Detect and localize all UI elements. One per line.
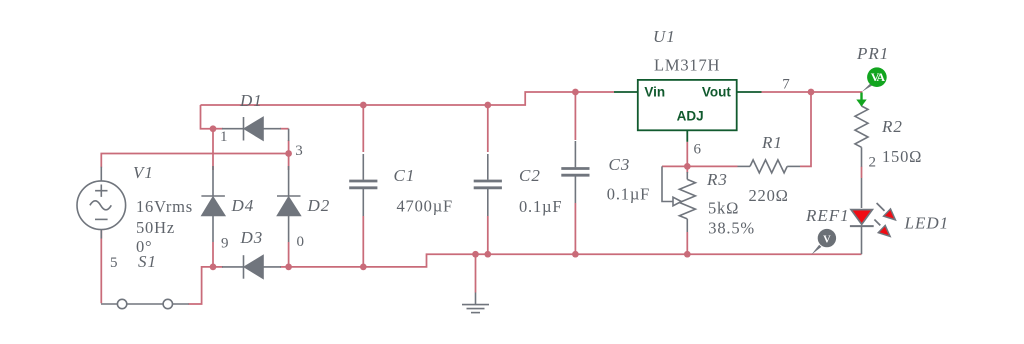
wire C2 top lead (487, 105, 489, 152)
svg-text:PR1: PR1 (856, 44, 889, 63)
svg-text:C3: C3 (609, 155, 631, 174)
svg-text:D4: D4 (231, 196, 255, 215)
node R3 bottom (684, 251, 691, 258)
svg-text:16Vrms: 16Vrms (136, 197, 193, 216)
svg-text:5kΩ: 5kΩ (708, 199, 739, 218)
diode D3 (222, 255, 281, 279)
wire R2 to LED segment (861, 167, 863, 179)
node C2 bottom (484, 251, 491, 258)
wire D3 stub to node 0 (280, 266, 289, 268)
wire node 6 to pot wiper corner (662, 165, 687, 167)
svg-text:220Ω: 220Ω (749, 186, 789, 205)
wire source bottom to switch (100, 230, 102, 304)
resistor R1 (738, 160, 801, 173)
wire C3 bottom lead (574, 203, 576, 254)
wire R3 top lead (686, 166, 688, 173)
svg-text:0: 0 (297, 234, 305, 250)
wire C3 top lead (574, 92, 576, 140)
svg-text:VA: VA (871, 70, 886, 84)
svg-text:4700µF: 4700µF (397, 197, 453, 216)
svg-text:REF1: REF1 (805, 206, 850, 225)
capacitor C1 (349, 154, 377, 216)
svg-text:D1: D1 (239, 91, 263, 110)
svg-text:LED1: LED1 (904, 214, 950, 233)
op-amp U1 regulator LM317H box (614, 80, 762, 142)
wire node 1 to D1 anode stub (213, 128, 223, 130)
svg-text:7: 7 (782, 77, 790, 93)
node C3 top (572, 89, 579, 96)
probe PR1 (856, 67, 886, 106)
ground (462, 293, 489, 313)
wire C2 bottom lead (487, 216, 489, 254)
probe REF1 (811, 229, 836, 255)
capacitor C3 (561, 141, 589, 203)
node 7 (808, 89, 815, 96)
svg-text:3: 3 (295, 143, 303, 159)
LED LED1 (850, 178, 896, 254)
wire node 3 down to D2 (288, 154, 290, 171)
wire ADJ down to node 6 (686, 142, 688, 167)
wire D1 cathode stub to corner (280, 128, 289, 130)
wire node 9 to D3 stub (213, 266, 223, 268)
wire D4 bottom to node 9 (212, 242, 214, 267)
wire node 3 up to D1 right (288, 140, 290, 154)
wire node 6 to R1 (687, 165, 737, 167)
node 6 (684, 163, 691, 170)
svg-text:C2: C2 (519, 166, 541, 185)
wire R3 bottom lead (686, 232, 688, 254)
wire R1 right to output rail (800, 92, 811, 166)
svg-text:1: 1 (220, 129, 228, 145)
svg-text:Vin: Vin (644, 84, 665, 99)
svg-text:5: 5 (110, 255, 118, 271)
node 3 (285, 150, 292, 157)
node 1 (210, 125, 217, 132)
node junction dots (210, 89, 815, 271)
resistor R2 (855, 103, 868, 167)
wire ground branch (475, 254, 477, 292)
node C3 bottom (572, 251, 579, 258)
node 9 (210, 264, 217, 271)
svg-text:V1: V1 (133, 163, 154, 182)
svg-text:50Hz: 50Hz (136, 218, 175, 237)
diode D4 (201, 166, 225, 242)
svg-text:U1: U1 (653, 27, 676, 46)
svg-text:ADJ: ADJ (677, 108, 704, 123)
diode D1 (222, 117, 289, 141)
wire node 1 down to D4 (212, 129, 214, 170)
svg-text:2: 2 (869, 155, 877, 171)
svg-text:D2: D2 (307, 196, 331, 215)
svg-text:0.1µF: 0.1µF (607, 185, 650, 204)
node C2 top (484, 102, 491, 109)
wire source top to node 3 (101, 154, 288, 168)
diode D2 (277, 166, 301, 242)
svg-text:S1: S1 (138, 252, 157, 271)
wire Vout to output corner (762, 92, 862, 106)
svg-text:V: V (823, 234, 831, 245)
wire bottom rail left (node 0 to step) (289, 254, 862, 267)
node 0 (285, 264, 292, 271)
node ground tap (472, 251, 479, 258)
wire C1 top lead (362, 105, 364, 152)
wire C1 bottom lead (362, 216, 364, 267)
svg-text:LM317H: LM317H (654, 56, 720, 75)
node C1 bottom (360, 264, 367, 271)
wire switch to node 9 (188, 267, 213, 304)
svg-text:6: 6 (694, 142, 702, 158)
AC source V1 (77, 167, 126, 239)
capacitor C2 (474, 154, 502, 216)
wire top rail from bridge + to regulator Vin (201, 92, 615, 105)
switch S1 (101, 299, 189, 308)
node C1 top (360, 102, 367, 109)
svg-text:150Ω: 150Ω (882, 147, 922, 166)
wire corner from top rail down to node 1 (201, 105, 214, 129)
svg-text:D3: D3 (240, 228, 264, 247)
resistor R3 potentiometer (662, 166, 695, 232)
wire D2 bottom to node 0 (288, 242, 290, 267)
svg-text:R2: R2 (881, 117, 903, 136)
svg-text:38.5%: 38.5% (708, 218, 755, 237)
svg-text:R3: R3 (706, 170, 728, 189)
svg-text:Vout: Vout (702, 84, 731, 99)
svg-text:0.1µF: 0.1µF (519, 197, 562, 216)
svg-text:R1: R1 (761, 133, 783, 152)
svg-text:C1: C1 (394, 166, 416, 185)
svg-text:9: 9 (221, 236, 229, 252)
